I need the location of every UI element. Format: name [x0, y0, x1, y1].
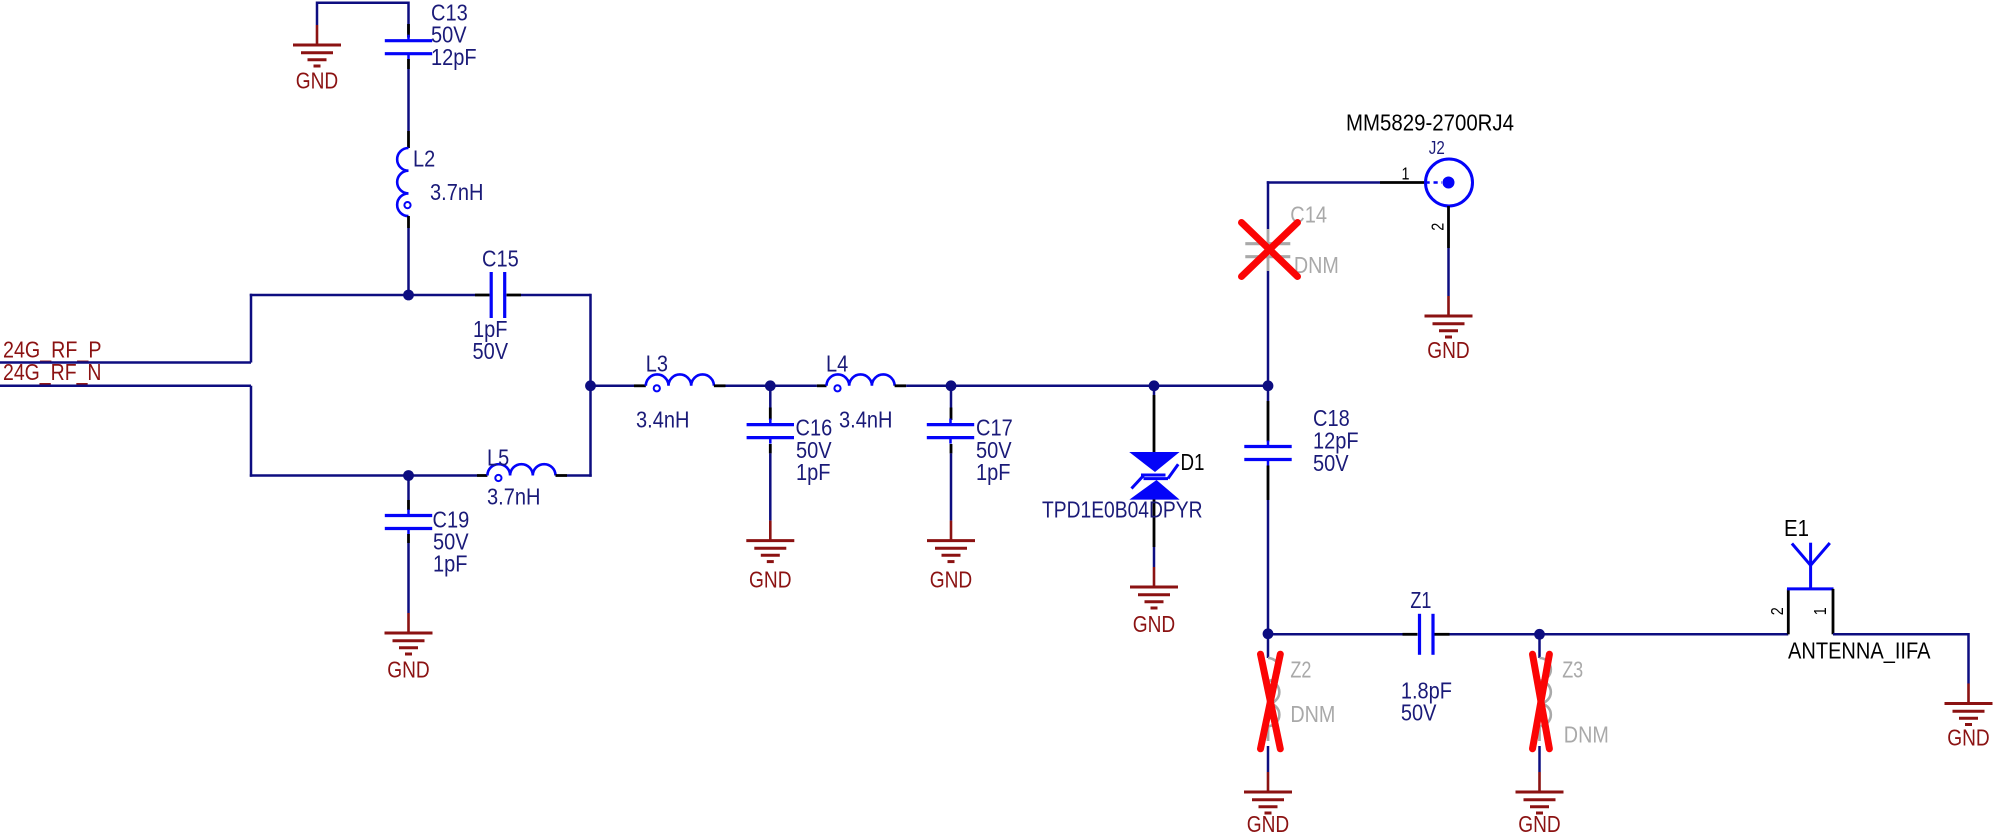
wire node G down to Z2 — [1267, 634, 1270, 658]
capacitor C17 pin 2 (black stub) — [950, 444, 953, 453]
label C13 — [431, 0, 468, 26]
svg-text:D1: D1 — [1181, 449, 1205, 475]
wire node B to L3 — [591, 385, 635, 388]
svg-text:1pF: 1pF — [796, 459, 831, 485]
svg-text:GND: GND — [1427, 337, 1470, 363]
svg-text:DNM: DNM — [1294, 252, 1339, 278]
svg-text:GND: GND — [296, 68, 339, 94]
inductor L5 pin 2 (black stub) — [556, 474, 568, 477]
connector J2 dashed center line — [1426, 181, 1443, 184]
wire left edge lower (N side) — [250, 386, 253, 477]
wire node H down to Z3 — [1538, 634, 1541, 658]
wire port 24G_RF_P — [0, 361, 251, 364]
label Z1 — [1410, 587, 1431, 613]
svg-text:3.4nH: 3.4nH — [839, 407, 892, 433]
wire top edge right segment — [521, 294, 591, 297]
capacitor Z1 — [1420, 614, 1434, 655]
label L2 3.7nH — [430, 179, 483, 205]
label C16 50V — [796, 437, 832, 463]
label Z3 (gray) — [1562, 657, 1583, 683]
ground GND under antenna — [1945, 684, 1993, 751]
inductor L4 pin 2 (black stub) — [895, 384, 907, 387]
wire node C down — [769, 386, 772, 408]
svg-text:GND: GND — [1133, 611, 1176, 637]
svg-text:L2: L2 — [413, 146, 435, 172]
wire bottom edge right segment — [567, 474, 592, 477]
label J2 pin number 2 — [1428, 223, 1448, 231]
wire C17 to GND — [950, 453, 953, 520]
wire node G to Z1 — [1268, 633, 1403, 636]
no-fit cross over C14 — [1242, 223, 1298, 277]
svg-text:50V: 50V — [473, 338, 509, 364]
label L3 — [646, 351, 668, 377]
capacitor Z1 pin 1 (black stub) — [1403, 633, 1418, 636]
capacitor C17 pin 1 (black stub) — [950, 408, 953, 421]
ground GND under Z2 — [1244, 772, 1292, 834]
label L4 3.4nH — [839, 407, 892, 433]
inductor L4 — [827, 374, 895, 391]
label C16 1pF — [796, 459, 831, 485]
capacitor C14 (DNM, gray) — [1245, 229, 1290, 257]
wire node to C19 — [407, 476, 410, 501]
junction node G (antenna feed) — [1263, 628, 1274, 639]
wire L3 to node C — [726, 385, 771, 388]
svg-text:L3: L3 — [646, 351, 668, 377]
label TPD1E0B04DPYR — [1042, 497, 1203, 523]
wire C13 to L2 — [407, 69, 410, 131]
svg-text:Z3: Z3 — [1562, 657, 1583, 683]
capacitor C16 pin 1 (black stub) — [769, 408, 772, 421]
antenna E1 pin 2 (black lead) — [1787, 589, 1790, 634]
capacitor C19 — [385, 510, 432, 535]
inductor L2 pin 2 (black stub) — [407, 216, 410, 228]
label C13 50V — [431, 22, 467, 48]
label C13 12pF — [431, 44, 477, 70]
capacitor C15 pin 2 (black stub) — [507, 294, 522, 297]
svg-text:DNM: DNM — [1290, 701, 1335, 727]
capacitor C19 pin 1 (black stub) — [407, 500, 410, 510]
label C19 50V — [433, 528, 469, 554]
junction node H (Z3 tap) — [1534, 629, 1545, 640]
label C17 50V — [976, 437, 1012, 463]
capacitor C18 pin 1 (black stub) — [1267, 401, 1270, 442]
label Z3 DNM (gray) — [1564, 722, 1609, 748]
label C15 50V — [473, 338, 509, 364]
svg-text:ANTENNA_IIFA: ANTENNA_IIFA — [1788, 638, 1931, 664]
svg-text:1: 1 — [1402, 164, 1410, 184]
wire antenna pin 1 to corner — [1833, 634, 1969, 683]
ground GND under J2 — [1425, 296, 1473, 363]
wire L2 to node A — [407, 228, 410, 295]
label Z2 (gray) — [1290, 657, 1311, 683]
svg-text:GND: GND — [1247, 811, 1290, 834]
svg-text:12pF: 12pF — [431, 44, 477, 70]
ground GND under D1 — [1130, 567, 1178, 637]
label L3 3.4nH — [636, 407, 689, 433]
label C18 50V — [1313, 450, 1349, 476]
ground GND near C13 — [293, 25, 341, 94]
diode D1 TVS top triangle — [1129, 452, 1179, 472]
label E1 pin number 1 — [1810, 607, 1830, 615]
svg-text:3.7nH: 3.7nH — [487, 484, 540, 510]
wire bottom edge left segment — [250, 474, 477, 477]
svg-text:1pF: 1pF — [976, 459, 1011, 485]
wire corner to J2 pin 1 — [1267, 181, 1380, 184]
inductor Z3 pin stub (gray) — [1538, 726, 1541, 741]
wire node D down — [950, 386, 953, 408]
capacitor C16 pin 2 (black stub) — [769, 444, 772, 453]
connector J2 circle — [1426, 159, 1473, 206]
capacitor C14 pin 2 (gray stub) — [1267, 257, 1270, 271]
antenna E1 symbol — [1787, 543, 1834, 589]
label C18 12pF — [1313, 428, 1359, 454]
wire L4 to node D — [906, 385, 951, 388]
inductor L3 pin 2 (black stub) — [714, 384, 726, 387]
label MM5829-2700RJ4 — [1346, 110, 1514, 136]
label D1 — [1181, 449, 1205, 475]
svg-text:GND: GND — [1518, 811, 1561, 834]
wire Z3 to GND — [1538, 746, 1541, 772]
no-fit cross over Z2 — [1261, 654, 1281, 749]
wire node H to antenna pin 2 — [1540, 633, 1789, 636]
label C16 — [796, 414, 833, 440]
svg-text:C15: C15 — [482, 246, 519, 272]
wire node D to node E — [951, 385, 1154, 388]
svg-text:50V: 50V — [1401, 700, 1437, 726]
capacitor C15 pin 1 (black stub) — [475, 294, 490, 297]
inductor L3 — [646, 374, 714, 391]
svg-text:MM5829-2700RJ4: MM5829-2700RJ4 — [1346, 110, 1514, 136]
ground GND under C17 — [927, 521, 975, 593]
inductor L2 pin 1 (black stub) — [407, 131, 410, 148]
svg-text:24G_RF_N: 24G_RF_N — [3, 359, 102, 385]
capacitor C19 pin 2 (black stub) — [407, 534, 410, 543]
capacitor C13 pin 2 (black stub) — [407, 59, 410, 69]
svg-text:L4: L4 — [826, 351, 848, 377]
wire right edge — [589, 294, 592, 477]
wire node C to L4 — [770, 385, 817, 388]
wire C14 to J2 corner — [1267, 181, 1270, 229]
wire top edge left segment — [250, 294, 475, 297]
label C15 1pF — [473, 316, 508, 342]
svg-text:1pF: 1pF — [433, 550, 468, 576]
label E1 — [1784, 515, 1809, 541]
label L2 — [413, 146, 435, 172]
wire node F down — [1267, 386, 1270, 401]
port 24G_RF_N label — [3, 359, 102, 385]
capacitor C13 pin 1 (black stub) — [407, 24, 410, 38]
inductor L5 — [487, 464, 555, 481]
svg-text:1: 1 — [1810, 607, 1830, 615]
port 24G_RF_P label — [3, 337, 102, 363]
svg-text:2: 2 — [1428, 223, 1448, 231]
wire Z1 to node H — [1450, 633, 1540, 636]
label C17 1pF — [976, 459, 1011, 485]
svg-text:Z1: Z1 — [1410, 587, 1431, 613]
inductor L5 pin 1 (black stub) — [477, 474, 487, 477]
antenna E1 pin 1 (black lead) — [1832, 589, 1835, 634]
diode D1 pin 1 (black lead) — [1153, 395, 1156, 452]
junction node C (C16 tap) — [765, 380, 776, 391]
svg-text:50V: 50V — [1313, 450, 1349, 476]
capacitor C13 — [385, 35, 432, 60]
diode D1 TVS clamp zigzag — [1132, 464, 1179, 488]
svg-text:E1: E1 — [1784, 515, 1809, 541]
inductor L4 pin 1 (black stub) — [817, 384, 827, 387]
no-fit cross over Z3 — [1533, 654, 1550, 749]
label C14 (gray) — [1290, 201, 1327, 227]
inductor Z3 (DNM, gray) — [1538, 658, 1551, 726]
capacitor Z1 pin 2 (black stub) — [1435, 633, 1450, 636]
capacitor C18 pin 2 (black stub) — [1267, 466, 1270, 501]
capacitor C17 — [927, 419, 974, 444]
label C18 — [1313, 405, 1350, 431]
label ANTENNA_IIFA — [1788, 638, 1931, 664]
label J2 pin number 1 — [1402, 164, 1410, 184]
svg-text:GND: GND — [387, 657, 430, 683]
wire C18 to node G — [1267, 500, 1270, 634]
junction node D (C17 tap) — [946, 380, 957, 391]
inductor Z2 (DNM, gray) — [1266, 658, 1279, 726]
svg-text:3.4nH: 3.4nH — [636, 407, 689, 433]
label C15 — [482, 246, 519, 272]
inductor L2 — [397, 148, 410, 216]
capacitor C18 — [1244, 441, 1291, 466]
label Z2 DNM (gray) — [1290, 701, 1335, 727]
diode D1 TVS bottom triangle — [1129, 480, 1179, 500]
svg-text:GND: GND — [930, 567, 973, 593]
junction node B (right edge output) — [585, 380, 596, 391]
wire C19 to GND — [407, 543, 410, 613]
connector J2 center dot — [1443, 177, 1455, 189]
wire port 24G_RF_N — [0, 385, 251, 388]
ground GND under Z3 — [1516, 772, 1564, 834]
svg-text:J2: J2 — [1429, 137, 1445, 158]
capacitor C15 — [491, 272, 505, 318]
inductor Z2 pin stub (gray) — [1267, 726, 1270, 741]
label C17 — [976, 414, 1013, 440]
wire top-left corner from GND to C13 branch — [317, 3, 409, 33]
junction node C19 tap — [403, 470, 414, 481]
svg-text:GND: GND — [749, 567, 792, 593]
svg-text:2: 2 — [1767, 607, 1787, 615]
label Z1 50V — [1401, 700, 1437, 726]
label J2 — [1429, 137, 1445, 158]
svg-text:GND: GND — [1947, 725, 1990, 751]
svg-text:DNM: DNM — [1564, 722, 1609, 748]
capacitor C16 — [747, 419, 794, 444]
wire node F up to J2 corner — [1267, 271, 1270, 386]
svg-text:TPD1E0B04DPYR: TPD1E0B04DPYR — [1042, 497, 1203, 523]
svg-text:3.7nH: 3.7nH — [430, 179, 483, 205]
svg-text:Z2: Z2 — [1290, 657, 1311, 683]
ground GND under C19 — [385, 613, 433, 683]
label L4 — [826, 351, 848, 377]
junction node E (D1 tap) — [1149, 380, 1160, 391]
label E1 pin number 2 — [1767, 607, 1787, 615]
wire Z2 to GND — [1267, 746, 1270, 772]
junction node A (top edge) — [403, 290, 414, 301]
wire C16 to GND — [769, 453, 772, 520]
wire node E down — [1153, 386, 1156, 395]
label L5 3.7nH — [487, 484, 540, 510]
inductor L3 pin 1 (black stub) — [634, 384, 646, 387]
connector J2 pin 2 (black lead) — [1447, 206, 1450, 248]
diode D1 pin 2 (black lead) — [1153, 500, 1156, 548]
wire left edge upper (P side) — [250, 294, 253, 363]
svg-text:L5: L5 — [487, 444, 509, 470]
connector J2 pin 1 (black lead) — [1380, 181, 1426, 184]
wire node E to node F — [1154, 385, 1268, 388]
label C14 DNM (gray) — [1294, 252, 1339, 278]
junction node F (C18 top) — [1263, 380, 1274, 391]
label Z1 1.8pF — [1401, 677, 1452, 703]
wire D1 to GND — [1153, 547, 1156, 567]
ground GND under C16 — [746, 521, 794, 593]
wire J2 pin 2 to GND — [1447, 248, 1450, 296]
label L5 — [487, 444, 509, 470]
label C19 1pF — [433, 550, 468, 576]
label C19 — [433, 506, 470, 532]
